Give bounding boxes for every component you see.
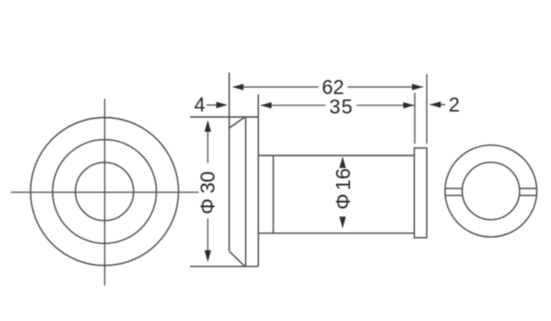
arrowhead 2 (points left) [430, 101, 441, 107]
rear view slot left top line [445, 187, 462, 189]
svg-text:35: 35 [329, 96, 353, 118]
arrowhead phi30 up [205, 120, 212, 132]
svg-text:2: 2 [449, 95, 460, 117]
svg-text:Φ16: Φ16 [333, 168, 355, 209]
nut right extension line (62/2 dim) [426, 74, 428, 144]
front view outer circle (flange rim) [31, 118, 179, 266]
rear view slot right top line [519, 187, 536, 189]
flange cone/cylinder junction edge [245, 117, 247, 266]
arrowhead phi30 down [205, 250, 212, 262]
front view vertical centerline [104, 99, 106, 286]
barrel bottom edge [258, 232, 414, 234]
dim phi30 line [207, 132, 209, 164]
arrowhead phi16 up [339, 157, 346, 168]
dim 2 leader line [430, 104, 446, 106]
dim 62 line [233, 86, 319, 88]
flange left face + extension line [228, 73, 230, 252]
rear view outer circle [445, 145, 537, 237]
nut left extension line (35/2 dim) [414, 93, 416, 144]
flange right face + extension line [257, 94, 259, 266]
dim 35 line [261, 104, 326, 106]
front view inner circle (lens) [75, 162, 133, 220]
nut rectangle [414, 148, 427, 238]
front view horizontal centerline [11, 191, 199, 193]
barrel top edge [258, 155, 414, 157]
rear view slot right bottom line [519, 194, 536, 196]
rear view inner circle [462, 162, 519, 219]
dim 4 leader line [207, 104, 227, 106]
arrowhead phi16 down [339, 217, 346, 229]
arrowhead 62 left [233, 84, 244, 90]
flange top chamfer [229, 117, 245, 128]
flange top edge + phi30 top extension line [190, 116, 258, 118]
arrowhead 35 right [403, 102, 414, 108]
flange bottom chamfer [229, 251, 245, 266]
svg-text:4: 4 [194, 95, 205, 117]
arrowhead 35 left [261, 102, 272, 108]
flange bottom edge + phi30 bottom extension line [190, 265, 258, 267]
barrel groove edge [272, 156, 274, 234]
rear view slot left bottom line [445, 194, 462, 196]
front view middle circle [53, 140, 157, 244]
arrowhead 62 right [412, 84, 423, 90]
arrowhead 4 (points right) [216, 102, 227, 108]
svg-text:Φ30: Φ30 [198, 171, 220, 214]
